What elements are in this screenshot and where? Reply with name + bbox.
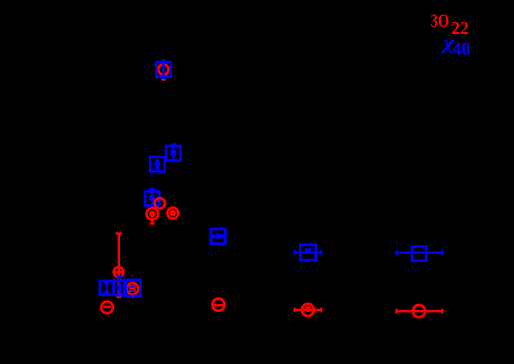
- svg-text:40: 40: [452, 39, 470, 60]
- svg-text:3O: 3O: [431, 11, 450, 32]
